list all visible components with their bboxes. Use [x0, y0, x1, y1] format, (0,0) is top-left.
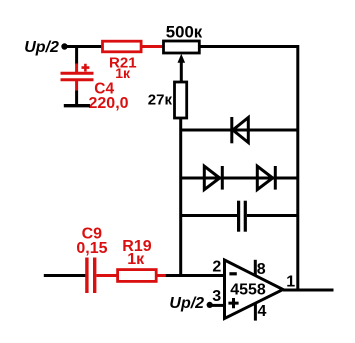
capacitor C9 [76, 225, 107, 293]
pin 3 label [212, 288, 221, 305]
wire: top diode rung [181, 129, 298, 132]
svg-text:0,15: 0,15 [76, 240, 107, 257]
capacitor C4 (polarized) [61, 64, 129, 112]
pin 4 stub [255, 303, 266, 321]
pin 2 label [212, 259, 221, 276]
op-amp inverting input minus sign [229, 272, 236, 275]
wire: C9 to R19 (red) [96, 274, 119, 277]
pin 8 stub [255, 260, 265, 278]
node Up/2 (bottom) junction dot [207, 302, 213, 308]
pin 1 label [286, 273, 295, 290]
resistor 27к [148, 82, 187, 118]
wire: potentiometer to right rail and down to output [199, 47, 297, 291]
op-amp non-inverting input plus sign [228, 298, 238, 308]
svg-text:2: 2 [212, 259, 221, 276]
node Up/2 (top) label [24, 39, 59, 56]
wire: R19 to inverting input (red then black) [156, 274, 224, 277]
wire: capacitor rung right [247, 214, 298, 217]
svg-text:3: 3 [212, 288, 221, 305]
svg-text:220,0: 220,0 [89, 95, 129, 112]
wire: op-amp output [283, 289, 334, 292]
wire: capacitor rung left [181, 214, 237, 217]
wire: Up/2 node to R21 [65, 45, 105, 48]
wire: R21 to potentiometer (red) [140, 45, 164, 48]
diode VD3 (pointing right) [257, 166, 275, 190]
svg-text:500к: 500к [166, 23, 203, 42]
svg-text:8: 8 [257, 261, 266, 278]
svg-text:1к: 1к [115, 65, 131, 81]
wire: Up/2 node down to C4 (black then red) [75, 45, 78, 73]
op-amp U1 4558 body [225, 260, 284, 319]
diode VD1 (pointing left) [232, 117, 249, 143]
svg-text:27к: 27к [148, 91, 173, 108]
svg-text:4: 4 [258, 303, 267, 320]
svg-text:Up/2: Up/2 [169, 295, 204, 312]
resistor R21 [103, 41, 142, 81]
node Up/2 (top) junction dot [61, 43, 67, 49]
wire: left feedback rail (27к bottom to inverting input) [179, 118, 182, 276]
svg-text:1к: 1к [127, 251, 145, 268]
terminal bar below C4 [64, 104, 90, 107]
wire: Up/2 to non-inverting input [210, 304, 225, 307]
potentiometer 500к body [164, 23, 203, 53]
wire: middle diode rung [181, 177, 298, 180]
capacitor (feedback, unlabeled) [239, 201, 246, 232]
wire: C4 bottom lead (red then black) [75, 81, 78, 105]
svg-text:Up/2: Up/2 [24, 39, 59, 56]
diode VD2 (pointing right) [204, 166, 222, 190]
svg-text:1: 1 [286, 273, 295, 290]
svg-text:4558: 4558 [230, 282, 266, 299]
node Up/2 (bottom) label [169, 295, 204, 312]
potentiometer wiper arrow [178, 54, 186, 83]
wire: bottom input lead [44, 274, 86, 277]
resistor R19 [118, 238, 157, 281]
